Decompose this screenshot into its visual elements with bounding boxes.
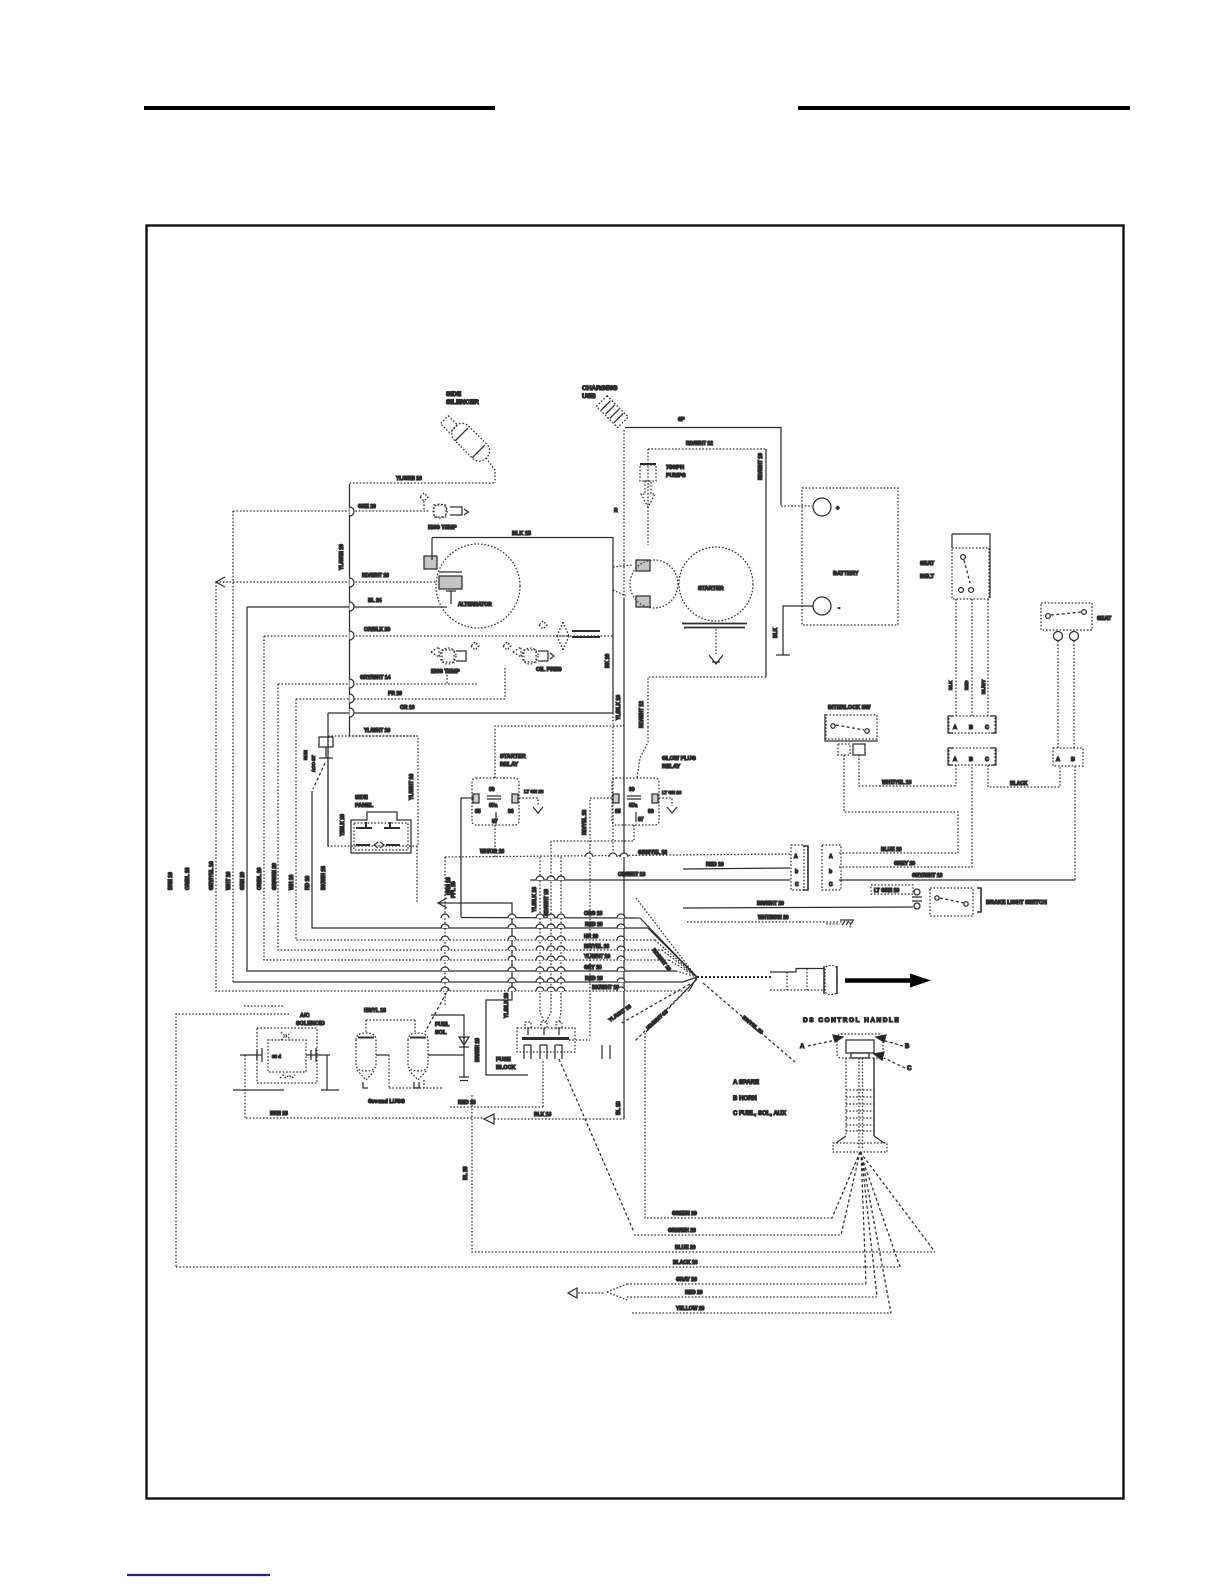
seat switch wires bbox=[1058, 641, 1074, 748]
svg-text:RED: RED bbox=[964, 680, 969, 690]
wire BLK 18 with arrow bbox=[494, 1118, 624, 1120]
hour meter cylinder 1 bbox=[356, 1033, 376, 1080]
svg-text:B: B bbox=[969, 725, 973, 731]
bus wire 1 BRN bbox=[216, 582, 689, 991]
side panel connector bbox=[351, 812, 411, 853]
fan down diagonal to handle bbox=[703, 983, 795, 1062]
svg-text:ACC ST: ACC ST bbox=[311, 755, 316, 772]
wire YELLOW 20 bbox=[632, 1312, 891, 1314]
svg-text:PANEL: PANEL bbox=[355, 803, 374, 809]
svg-text:R: R bbox=[614, 508, 618, 514]
wire OR/BLK 20 bbox=[264, 635, 613, 637]
svg-text:BRN 18: BRN 18 bbox=[270, 1111, 288, 1117]
svg-text:+: + bbox=[836, 506, 840, 512]
svg-text:87: 87 bbox=[492, 819, 498, 825]
svg-text:RED 18: RED 18 bbox=[458, 1100, 476, 1106]
svg-text:SOL: SOL bbox=[435, 1030, 447, 1036]
alternator box BLK 10 bbox=[432, 538, 613, 714]
battery ground wire bbox=[776, 606, 813, 655]
wire 6P solid to battery bbox=[625, 428, 781, 506]
svg-text:BL 18: BL 18 bbox=[463, 1166, 469, 1180]
svg-text:USB: USB bbox=[582, 393, 596, 400]
svg-text:A: A bbox=[1056, 757, 1060, 763]
svg-text:LT GRN 18: LT GRN 18 bbox=[874, 888, 899, 894]
handle grip body bbox=[845, 1058, 847, 1136]
header rule right bbox=[798, 106, 1130, 110]
fuel solenoid diode branch bbox=[431, 1015, 464, 1077]
svg-text:YL/BLK 18: YL/BLK 18 bbox=[532, 887, 538, 912]
label LT GRN 18 bbox=[871, 885, 913, 894]
charging port connector diagonal bbox=[596, 396, 628, 428]
harness stub to connector bbox=[697, 976, 772, 978]
brake light switch circles bbox=[914, 889, 920, 895]
arrow on RD/WHT16 corner bbox=[216, 577, 225, 587]
svg-text:C: C bbox=[985, 757, 989, 763]
svg-text:GRN/WH 20: GRN/WH 20 bbox=[668, 1228, 696, 1234]
svg-text:87a: 87a bbox=[489, 803, 498, 809]
svg-text:OR/BL 20: OR/BL 20 bbox=[257, 867, 263, 890]
svg-text:87: 87 bbox=[638, 817, 644, 823]
svg-text:GRN 20: GRN 20 bbox=[240, 872, 246, 890]
svg-text:GRE 20: GRE 20 bbox=[358, 504, 376, 510]
seat switch connector bbox=[1053, 748, 1083, 766]
svg-text:ENG TEMP: ENG TEMP bbox=[431, 669, 460, 675]
wire BRN 18 long bbox=[246, 1117, 484, 1119]
svg-text:WH 18: WH 18 bbox=[289, 875, 295, 891]
fan wire ORG 18 bbox=[640, 918, 697, 977]
ground chevron bbox=[709, 655, 723, 664]
fan wire BR/YEL 18 bbox=[662, 950, 697, 977]
hop arcs on fan horizontals bbox=[441, 853, 628, 991]
svg-text:GRY/WHT 18: GRY/WHT 18 bbox=[912, 873, 943, 879]
bus wire 7 solid bbox=[312, 791, 648, 928]
eng temp sender lower bbox=[431, 642, 479, 675]
svg-text:30: 30 bbox=[489, 787, 495, 793]
hop arcs on vertical bus bbox=[350, 507, 355, 717]
svg-text:A: A bbox=[800, 1044, 805, 1050]
svg-text:RD/WHT 12: RD/WHT 12 bbox=[639, 701, 645, 728]
loom pencil tip bbox=[568, 1288, 577, 1298]
svg-text:BLUE 18: BLUE 18 bbox=[881, 847, 902, 853]
oil pressure sender bbox=[503, 642, 562, 673]
svg-text:85: 85 bbox=[615, 809, 621, 815]
AC right capacitor lead bbox=[306, 1048, 330, 1062]
eng temp sender upper bbox=[420, 493, 468, 531]
starter relay top wire bbox=[495, 726, 624, 778]
svg-text:INTERLOCK SW: INTERLOCK SW bbox=[828, 705, 871, 711]
fan down diagonal to cyl2 bbox=[620, 984, 690, 1024]
hop bus vertical bbox=[349, 484, 351, 736]
svg-text:BR/YEL 20: BR/YEL 20 bbox=[741, 1015, 764, 1036]
svg-text:A: A bbox=[829, 854, 833, 860]
seat belt wires bbox=[956, 599, 988, 716]
svg-text:BL/WT: BL/WT bbox=[981, 680, 986, 694]
svg-text:BK/WHT 18: BK/WHT 18 bbox=[592, 985, 619, 991]
wire GRAY 20 bbox=[627, 1283, 866, 1285]
wire RED 18 to fuse bbox=[450, 1059, 543, 1107]
inline connector on OR/BLK wire bbox=[539, 621, 600, 650]
svg-text:BR/WHT 20: BR/WHT 20 bbox=[757, 901, 784, 907]
fan wire RED 18b bbox=[683, 977, 697, 982]
wire RD/WHT 16 bbox=[216, 581, 437, 583]
seat connector 1 bbox=[948, 716, 996, 733]
svg-text:OR 16: OR 16 bbox=[400, 705, 415, 711]
connector 2 pin wires bbox=[956, 765, 1060, 787]
wire GRY/WHT 14 bbox=[278, 683, 478, 685]
fuse pin3 diagonal to GRN/WHT bbox=[559, 1059, 634, 1232]
hour meter cylinder 2 bbox=[408, 1033, 428, 1080]
svg-text:BR/WH 18: BR/WH 18 bbox=[475, 1038, 481, 1062]
handle cap bbox=[837, 1034, 883, 1058]
fuse feed verticals bbox=[540, 841, 561, 1022]
svg-text:BRN 16: BRN 16 bbox=[168, 872, 174, 890]
svg-text:87a: 87a bbox=[629, 803, 638, 809]
svg-text:RED 16: RED 16 bbox=[706, 862, 724, 868]
svg-text:BELT: BELT bbox=[920, 574, 935, 580]
wire BLUE 18 bbox=[839, 852, 958, 854]
wire BL 24 solid bbox=[247, 606, 447, 608]
svg-text:YL/BLK 18: YL/BLK 18 bbox=[504, 993, 510, 1018]
wire drop from WH/BLK left bbox=[444, 857, 446, 1005]
bus wire 4 WHT bbox=[264, 636, 669, 960]
svg-text:OIL PRES: OIL PRES bbox=[536, 667, 562, 673]
svg-text:75GPH: 75GPH bbox=[666, 465, 684, 471]
battery terminals bbox=[813, 498, 831, 516]
svg-text:B HORN: B HORN bbox=[733, 1096, 757, 1102]
svg-text:RD 16: RD 16 bbox=[305, 876, 311, 890]
silencer tip connector bbox=[441, 416, 458, 433]
seat belt switch bbox=[952, 534, 990, 599]
svg-text:RED 18: RED 18 bbox=[585, 976, 603, 982]
svg-text:BK/WH 18: BK/WH 18 bbox=[321, 866, 327, 890]
svg-text:BLK: BLK bbox=[773, 627, 779, 638]
interlock pin boxes bbox=[838, 744, 850, 755]
svg-text:85: 85 bbox=[475, 809, 481, 815]
starter relay bbox=[472, 778, 519, 825]
connector columns ABC pair bbox=[791, 845, 841, 890]
starter ground lead bbox=[715, 629, 717, 654]
svg-text:RELAY: RELAY bbox=[500, 762, 518, 768]
svg-text:PUMPS: PUMPS bbox=[666, 473, 686, 479]
svg-text:b: b bbox=[795, 869, 798, 875]
svg-text:A: A bbox=[953, 725, 957, 731]
wire RD/WHT 10 right side solid bbox=[765, 449, 767, 677]
AC bottom left solid bbox=[233, 1089, 284, 1091]
bus wire 5 GRN bbox=[278, 684, 662, 950]
svg-text:RELAY: RELAY bbox=[662, 764, 680, 770]
bus wire ORG solid from relay bbox=[461, 917, 640, 920]
svg-text:HRN 18: HRN 18 bbox=[446, 877, 452, 895]
wire BLACK 16 bottom long bbox=[176, 1266, 900, 1268]
svg-text:GRY/WHT 14: GRY/WHT 14 bbox=[360, 675, 391, 681]
fuse block right wire bbox=[569, 1039, 590, 1041]
small connector bracket bbox=[602, 1045, 610, 1059]
svg-text:BLUE 20: BLUE 20 bbox=[675, 1245, 696, 1251]
svg-text:30: 30 bbox=[629, 787, 635, 793]
fan wire BK/WHT 18 bbox=[689, 977, 697, 991]
svg-text:B: B bbox=[1071, 757, 1075, 763]
svg-text:A/C: A/C bbox=[300, 1013, 310, 1019]
svg-text:ALTERNATOR: ALTERNATOR bbox=[458, 602, 492, 608]
svg-text:FUEL: FUEL bbox=[435, 1022, 450, 1028]
glow relay bottom wire bbox=[551, 825, 634, 841]
starter relay left wire solid bbox=[461, 798, 474, 917]
wire GREEN 20 bbox=[645, 1033, 832, 1218]
svg-text:RD/WHT 12: RD/WHT 12 bbox=[686, 441, 713, 447]
fan wire HR 20 bbox=[655, 940, 697, 977]
starter relay bottom wire bbox=[494, 825, 496, 857]
pump rect left drop bbox=[647, 449, 649, 545]
key switch dotted box bbox=[328, 736, 418, 846]
svg-text:RD/WHT 10: RD/WHT 10 bbox=[758, 453, 764, 480]
key box drop wire bbox=[416, 846, 418, 903]
bus wire 3 GRY/YEL solid bbox=[247, 607, 676, 971]
svg-text:-: - bbox=[838, 606, 840, 612]
wire BR/WHT 20 solid bbox=[683, 907, 913, 908]
inner squiggle top bbox=[244, 1005, 283, 1007]
svg-text:OR/WHT 18: OR/WHT 18 bbox=[618, 872, 645, 878]
svg-text:SEAT: SEAT bbox=[1097, 616, 1112, 622]
fan wire RED 18a bbox=[648, 928, 697, 977]
svg-text:A: A bbox=[953, 757, 957, 763]
interlock pin wires bbox=[844, 755, 958, 853]
svg-text:RD/YEL 18: RD/YEL 18 bbox=[582, 810, 588, 835]
svg-text:RD/WHT 16: RD/WHT 16 bbox=[362, 573, 389, 579]
seat switch box bbox=[1041, 603, 1092, 641]
svg-text:ORG 18: ORG 18 bbox=[584, 911, 603, 917]
fan wire GRY 18 bbox=[676, 971, 697, 977]
wire YL/WHT 16 bbox=[349, 735, 417, 737]
fuel pump body bbox=[640, 463, 656, 465]
solenoid circle bbox=[630, 560, 678, 608]
svg-text:A SPARE: A SPARE bbox=[733, 1080, 759, 1086]
wire WHT/BRN 20 bbox=[687, 922, 850, 929]
harness connector body bbox=[770, 969, 824, 973]
starter circle bbox=[679, 547, 753, 621]
footer link underline bbox=[127, 1574, 270, 1576]
wire GREY 20 bbox=[839, 766, 972, 867]
svg-text:BL 24: BL 24 bbox=[368, 598, 382, 604]
svg-text:DS CONTROL HANDLE: DS CONTROL HANDLE bbox=[803, 1017, 900, 1024]
svg-text:SILENCER: SILENCER bbox=[446, 399, 479, 406]
wire PR 20 bbox=[296, 698, 505, 700]
brake light switch box bbox=[930, 888, 1047, 916]
starter ground bar bbox=[682, 624, 747, 628]
ground lug symbol bbox=[826, 923, 840, 925]
sender lead oil pres bbox=[504, 668, 506, 699]
svg-text:C: C bbox=[829, 882, 833, 888]
svg-text:35 d: 35 d bbox=[272, 1054, 281, 1059]
wire drop x613 bbox=[612, 713, 614, 855]
svg-text:SEAT: SEAT bbox=[920, 561, 935, 567]
wire RED 20 bbox=[627, 1296, 877, 1298]
wire GRN/WHT 20 bbox=[634, 1234, 841, 1236]
svg-text:B: B bbox=[969, 757, 973, 763]
bus wire 2 horizontal solid bbox=[233, 981, 683, 983]
svg-text:YL/WHT 18: YL/WHT 18 bbox=[584, 954, 610, 960]
wire WH/BLK GRN/YEL bbox=[445, 854, 790, 857]
svg-text:WHT/BRN 20: WHT/BRN 20 bbox=[758, 915, 789, 921]
svg-text:BLACK 16: BLACK 16 bbox=[673, 1260, 698, 1266]
svg-text:GLOW PLUG: GLOW PLUG bbox=[662, 756, 696, 762]
diagram border frame bbox=[147, 226, 1124, 1499]
svg-text:LT GN 18: LT GN 18 bbox=[662, 790, 682, 795]
AC solenoid box bbox=[257, 1028, 317, 1083]
svg-text:ENG TEMP: ENG TEMP bbox=[428, 525, 457, 531]
svg-text:YELLOW 20: YELLOW 20 bbox=[676, 1306, 705, 1312]
wire BLUE 20 bbox=[472, 1095, 935, 1252]
fan down diagonal 2 bbox=[634, 981, 695, 1042]
wire OR/WHT 18 bbox=[530, 879, 790, 881]
svg-text:STARTER: STARTER bbox=[698, 586, 724, 592]
svg-text:YL/GRN 16: YL/GRN 16 bbox=[396, 476, 422, 482]
seat connector 2 bbox=[948, 748, 996, 765]
charging connector lead bbox=[623, 430, 625, 560]
svg-text:RED 20: RED 20 bbox=[685, 1290, 703, 1296]
svg-text:SOLENOID: SOLENOID bbox=[296, 1021, 325, 1027]
handle tip fan wires bbox=[832, 1152, 935, 1313]
svg-text:RUN: RUN bbox=[303, 750, 308, 760]
fan diagonal RD/WHT 18 from NE bbox=[636, 898, 695, 975]
outer dotted rect left bbox=[176, 1014, 289, 1267]
cyl link wires bbox=[376, 1054, 389, 1056]
svg-text:C: C bbox=[985, 725, 989, 731]
alternator circle bbox=[436, 544, 520, 628]
charging down wire dotted bbox=[623, 560, 625, 598]
svg-text:SIDE: SIDE bbox=[355, 795, 368, 801]
svg-text:Ground LUGS: Ground LUGS bbox=[368, 1099, 405, 1105]
AC right solid path bbox=[321, 1055, 339, 1090]
svg-text:STARTER: STARTER bbox=[500, 754, 526, 760]
solenoid pin blocks bbox=[636, 560, 650, 571]
fan down diagonal to GREEN vertical bbox=[645, 979, 697, 1033]
svg-text:BATTERY: BATTERY bbox=[833, 571, 859, 577]
vertical BLK main solid bbox=[623, 598, 625, 1119]
AC left drop wire bbox=[244, 1055, 246, 1118]
AC left capacitor lead bbox=[240, 1048, 262, 1062]
svg-text:WHT 16: WHT 16 bbox=[226, 871, 232, 890]
svg-text:GRY/YEL 16: GRY/YEL 16 bbox=[209, 861, 215, 890]
svg-text:PR 20: PR 20 bbox=[388, 691, 402, 697]
fan wire YL/WHT 18 bbox=[669, 960, 697, 977]
handle base flare bbox=[836, 1136, 884, 1143]
svg-text:A: A bbox=[794, 854, 798, 860]
svg-text:OR/BL 18: OR/BL 18 bbox=[185, 867, 191, 890]
svg-text:BRAKE LIGHT SWITCH: BRAKE LIGHT SWITCH bbox=[986, 900, 1047, 906]
svg-text:HR/YL 18: HR/YL 18 bbox=[364, 1008, 386, 1014]
svg-text:BLACK: BLACK bbox=[1010, 781, 1028, 787]
wire YL/GRN 16 bbox=[350, 482, 496, 484]
svg-text:LT GN 18: LT GN 18 bbox=[524, 789, 544, 794]
wire GRE 20 bbox=[233, 510, 430, 512]
svg-text:GREY 20: GREY 20 bbox=[894, 861, 915, 867]
svg-text:RED 18: RED 18 bbox=[585, 922, 603, 928]
svg-text:BR/YEL 18: BR/YEL 18 bbox=[584, 944, 609, 950]
svg-text:BL 18: BL 18 bbox=[616, 1101, 622, 1115]
glow relay feed wave bbox=[637, 727, 648, 778]
svg-text:YL/GRN 16: YL/GRN 16 bbox=[339, 544, 345, 570]
key switch symbol bbox=[319, 737, 333, 747]
svg-text:BLOCK: BLOCK bbox=[496, 1065, 516, 1071]
svg-text:GRY 18: GRY 18 bbox=[584, 965, 602, 971]
svg-text:86: 86 bbox=[508, 809, 514, 815]
silencer muffler body bbox=[448, 420, 493, 465]
svg-text:WH/OR 16: WH/OR 16 bbox=[480, 849, 504, 855]
svg-text:GR/GRN 20: GR/GRN 20 bbox=[272, 863, 278, 890]
svg-text:WHT/YEL 18: WHT/YEL 18 bbox=[882, 780, 912, 786]
svg-text:CHARGING: CHARGING bbox=[582, 385, 617, 392]
svg-text:C: C bbox=[907, 1066, 912, 1072]
svg-text:FUSE: FUSE bbox=[496, 1057, 511, 1063]
svg-text:OR/BLK 20: OR/BLK 20 bbox=[364, 627, 390, 633]
svg-text:RD/WHT 18: RD/WHT 18 bbox=[645, 1009, 669, 1032]
alternator terminal blocks bbox=[424, 556, 437, 569]
svg-text:BLK 15: BLK 15 bbox=[512, 531, 531, 537]
diagonal feed to cyl2 bbox=[425, 988, 449, 1032]
svg-text:HR 20: HR 20 bbox=[584, 934, 598, 940]
svg-text:86: 86 bbox=[648, 809, 654, 815]
svg-text:SIDE: SIDE bbox=[446, 391, 462, 398]
bus wire 6 OR/BL20 bbox=[296, 699, 655, 940]
svg-text:RD/WHT 18: RD/WHT 18 bbox=[544, 889, 550, 916]
solenoid feed wires bbox=[613, 565, 632, 596]
svg-text:YL/WHT 16: YL/WHT 16 bbox=[364, 728, 390, 734]
glow plug relay bbox=[612, 778, 659, 825]
bus wire 2 OR/BL bbox=[232, 511, 234, 982]
svg-text:BLK: BLK bbox=[948, 680, 953, 690]
svg-text:BLK 18: BLK 18 bbox=[534, 1112, 551, 1118]
fuse block bbox=[475, 1022, 575, 1071]
cyl top feed bbox=[366, 1020, 415, 1033]
wire GRY/WHT 18 solid bbox=[839, 879, 1075, 881]
svg-text:GREEN 20: GREEN 20 bbox=[672, 1211, 697, 1217]
svg-text:GRN/YEL 18: GRN/YEL 18 bbox=[638, 850, 667, 856]
svg-text:C: C bbox=[795, 882, 799, 888]
svg-text:YL/WHT 18: YL/WHT 18 bbox=[608, 1004, 633, 1024]
silencer component lead wire bbox=[486, 458, 495, 483]
svg-text:GRAY 20: GRAY 20 bbox=[676, 1277, 697, 1283]
svg-text:Y/BLK 18: Y/BLK 18 bbox=[340, 814, 346, 836]
svg-text:B: B bbox=[905, 1044, 910, 1050]
svg-text:YL/BLK 16: YL/BLK 16 bbox=[616, 695, 622, 720]
wire OR 16 solid bbox=[328, 712, 613, 714]
glow relay left wire RD/YEL bbox=[590, 798, 612, 1038]
svg-text:YL/WHT 18: YL/WHT 18 bbox=[409, 774, 415, 800]
svg-text:b: b bbox=[829, 869, 832, 875]
svg-text:6P: 6P bbox=[678, 417, 685, 423]
header rule left bbox=[144, 106, 495, 110]
svg-text:BK 16: BK 16 bbox=[605, 654, 611, 668]
interlock switch box bbox=[826, 715, 877, 739]
svg-text:C FUEL, SOL, AUX: C FUEL, SOL, AUX bbox=[733, 1111, 786, 1117]
wire RED 16 bbox=[683, 868, 790, 869]
battery outline bbox=[802, 488, 898, 625]
wire RD/WHT 12 dotted top bbox=[648, 448, 766, 450]
big arrow to engine harness bbox=[845, 978, 910, 983]
sender lead eng temp 2 bbox=[446, 668, 448, 684]
